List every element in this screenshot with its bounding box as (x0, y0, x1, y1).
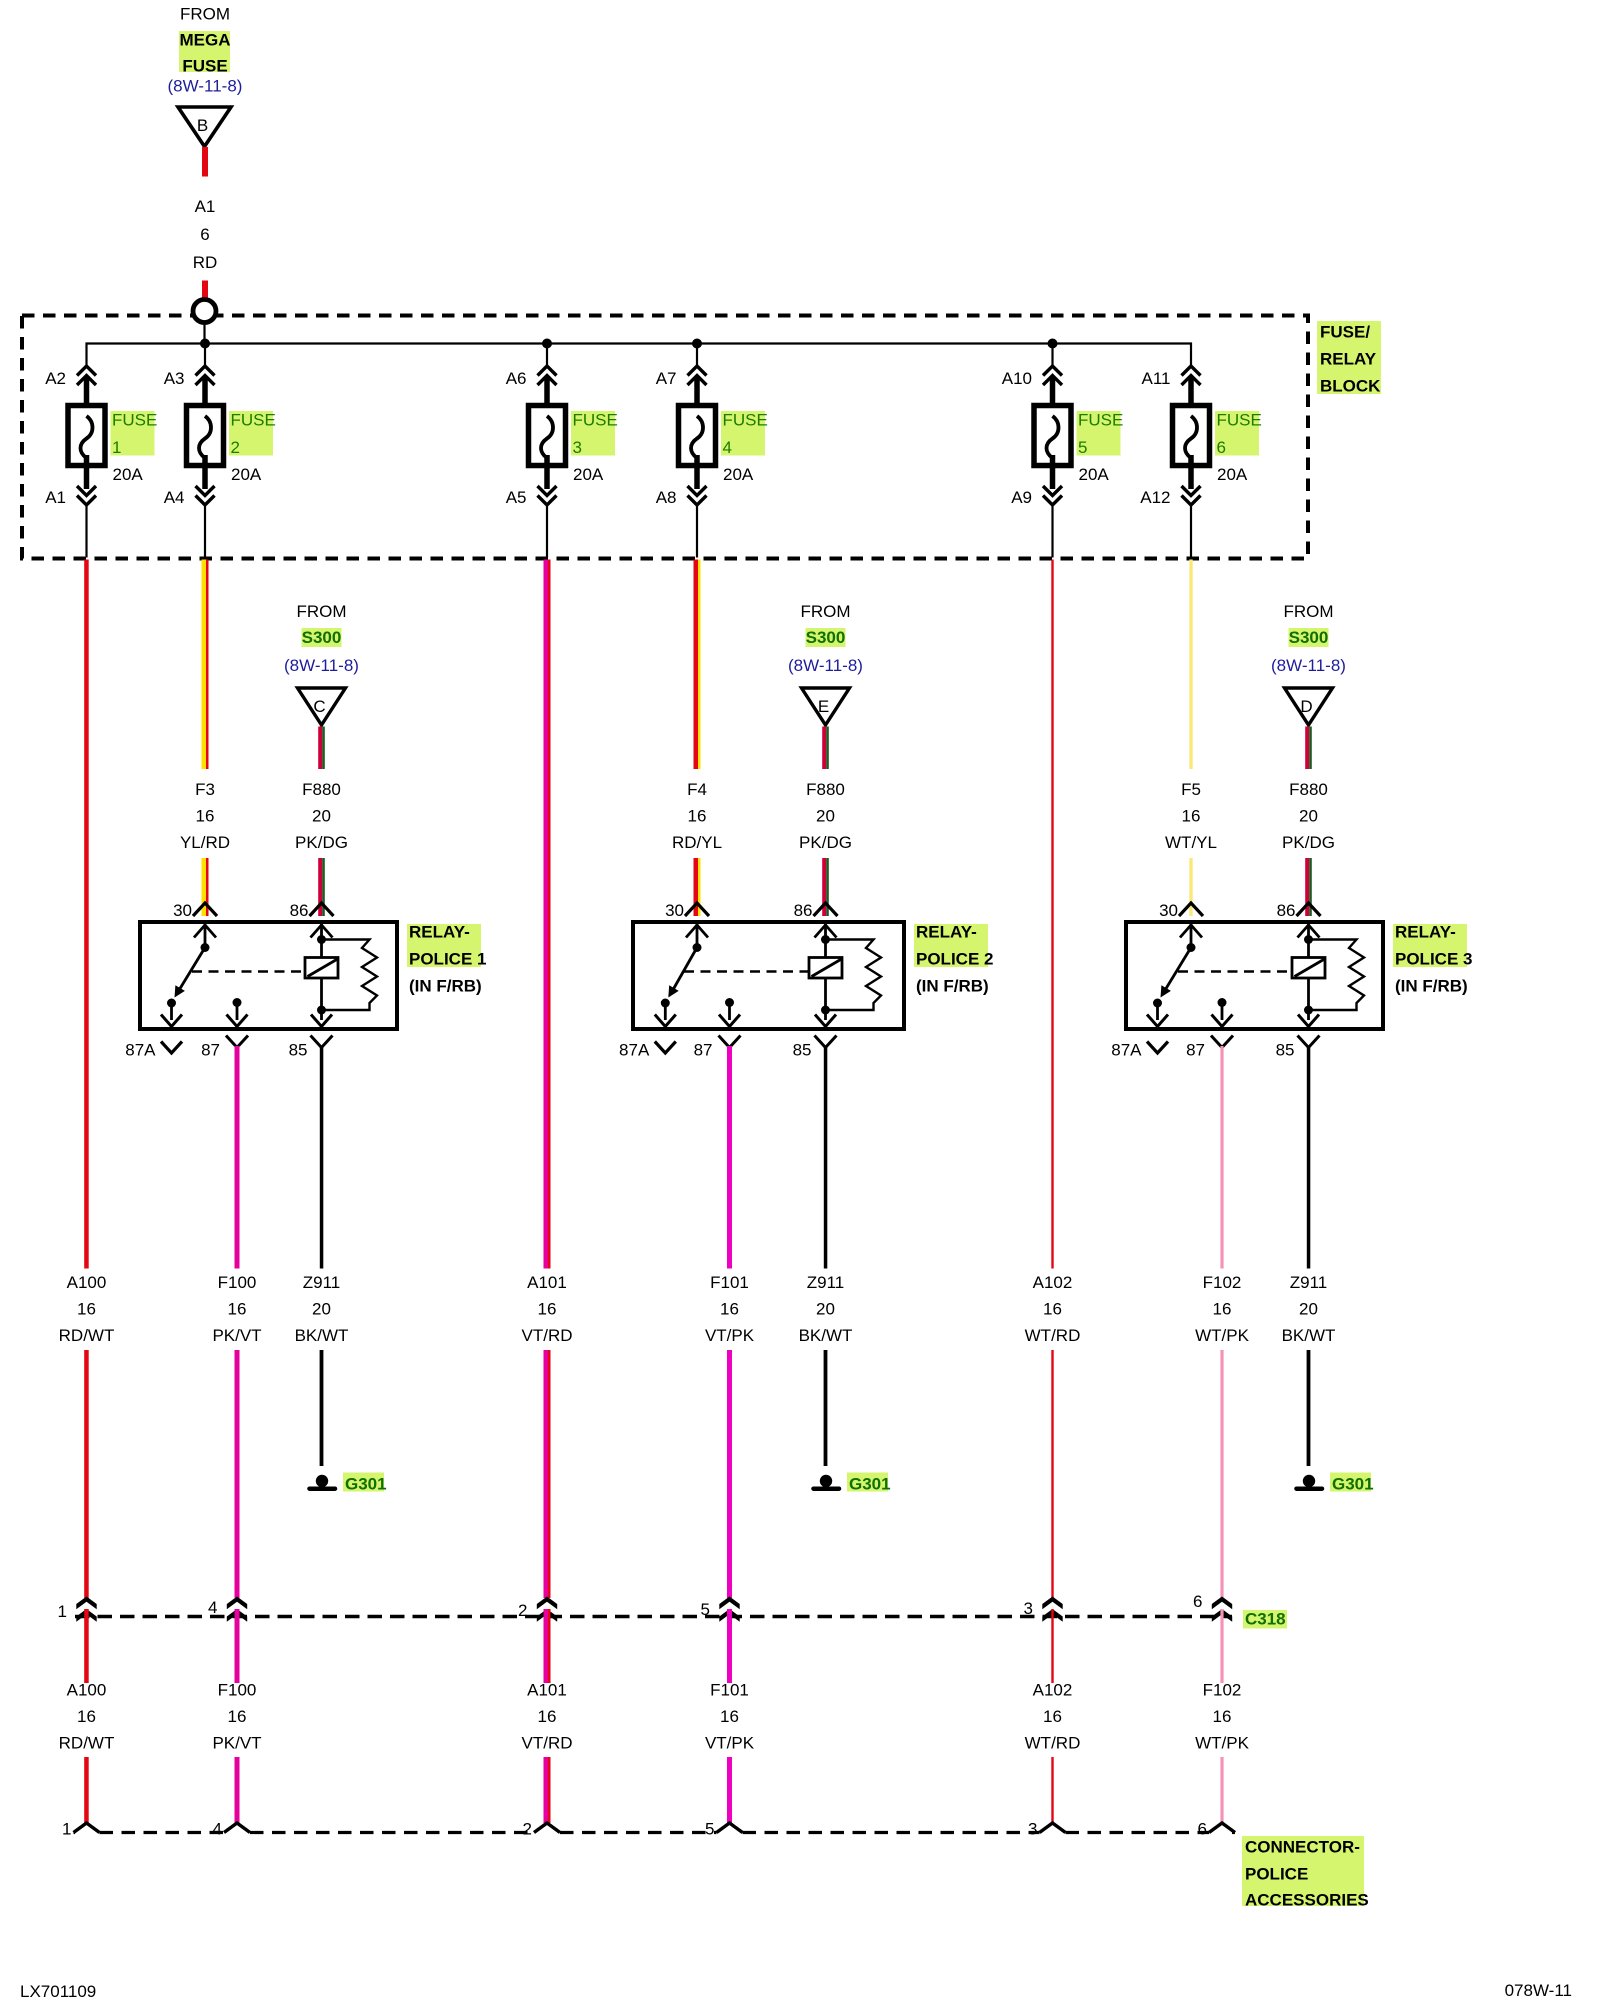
label RELAY-POLICE 2 (IN F/RB) (914, 923, 993, 996)
wire stub below fuse 1 (85, 505, 87, 558)
svg-text:5: 5 (701, 1600, 710, 1619)
svg-text:A6: A6 (506, 369, 527, 388)
wire F102 WT/PK - segment 2 (1220, 1350, 1223, 1598)
svg-text:16: 16 (720, 1707, 739, 1726)
off-page connector C (from S300) (298, 688, 346, 725)
wire A100 RD/WT - segment 4 (84, 1757, 89, 1823)
relay 2 pin 30 internal terminal (686, 924, 708, 952)
relay 3 pin 87A internal terminal (1147, 1003, 1168, 1027)
svg-text:VT/PK: VT/PK (705, 1734, 755, 1753)
svg-text:30: 30 (173, 901, 192, 920)
svg-text:F101: F101 (710, 1681, 749, 1700)
fuse F6 20A (1173, 378, 1210, 489)
svg-text:F101: F101 (710, 1273, 749, 1292)
svg-text:VT/PK: VT/PK (705, 1326, 755, 1345)
relay K3 RELAY-POLICE 3 box (1126, 922, 1383, 1029)
wire A101 VT/RD - segment 4 (544, 1757, 551, 1823)
connector pin A10 (fuse 5 top) (1002, 366, 1062, 388)
wire A102 WT/RD - segment 2 (1051, 1350, 1053, 1598)
wire F3 YL/RD - segment 2 (202, 858, 209, 916)
svg-text:FROM: FROM (180, 5, 230, 24)
svg-text:3: 3 (573, 438, 582, 457)
svg-text:3: 3 (1024, 1599, 1033, 1618)
svg-text:(IN F/RB): (IN F/RB) (409, 977, 482, 996)
relay 1 pin 87 internal terminal (227, 998, 248, 1027)
wire F880 PK/DG - segment 2 (relay 2) (822, 858, 829, 916)
label FROM S300 (8W-11-8) at E (788, 602, 863, 675)
footer sheet id LX701109 (20, 1982, 96, 2000)
wire A100 16 RD/WT - segment 1 (84, 560, 89, 1269)
connector pin A11 (fuse 6 top) (1142, 366, 1201, 388)
svg-text:PK/DG: PK/DG (1282, 833, 1335, 852)
svg-text:MEGA: MEGA (180, 31, 231, 50)
pin 87 connector (relay 2) (694, 1036, 741, 1060)
value label FUSE 6 (1215, 411, 1262, 458)
wire F101 VT/PK - segment 3 (727, 1609, 732, 1683)
label C318 (1243, 1610, 1287, 1629)
wire F100 16 PK/VT - segment 1 (235, 1046, 240, 1269)
svg-text:RD/WT: RD/WT (59, 1734, 115, 1753)
svg-text:078W-11: 078W-11 (1505, 1981, 1572, 2000)
relay 1 pin 87A internal terminal (161, 1003, 182, 1027)
value label FUSE 2 (229, 411, 276, 458)
svg-text:1: 1 (62, 1820, 71, 1839)
svg-text:A1: A1 (45, 488, 66, 507)
connector pin A1 (fuse 1 bottom) (45, 486, 96, 507)
svg-text:A12: A12 (1140, 488, 1170, 507)
svg-text:BLOCK: BLOCK (1320, 377, 1381, 396)
svg-text:86: 86 (1277, 901, 1296, 920)
svg-text:87: 87 (1186, 1041, 1205, 1060)
svg-text:B: B (197, 116, 208, 135)
relay 2 actuation dashed link (684, 970, 809, 973)
svg-text:85: 85 (289, 1041, 308, 1060)
connector pin A3 (fuse 2 top) (164, 366, 215, 388)
fuse F2 20A (187, 378, 224, 489)
svg-text:FROM: FROM (1283, 602, 1333, 621)
svg-text:F4: F4 (687, 780, 707, 799)
svg-text:87A: 87A (125, 1041, 156, 1060)
wire stub below fuse 3 (546, 505, 548, 558)
svg-text:6: 6 (1217, 438, 1226, 457)
relay K1 RELAY-POLICE 1 box (140, 922, 397, 1029)
wire label F880 20 PK/DG (1282, 780, 1335, 852)
connector pin A9 (fuse 5 bottom) (1011, 486, 1062, 507)
connector police accessories dashed line (74, 1831, 1236, 1834)
svg-text:A101: A101 (527, 1273, 567, 1292)
svg-text:(8W-11-8): (8W-11-8) (1271, 656, 1346, 675)
svg-text:FUSE: FUSE (182, 57, 227, 76)
svg-text:20: 20 (312, 1300, 331, 1319)
connector police accessories pin 4 (213, 1820, 250, 1839)
svg-text:FUSE: FUSE (112, 411, 157, 430)
svg-text:6: 6 (1198, 1820, 1207, 1839)
svg-text:1: 1 (112, 438, 121, 457)
svg-text:F880: F880 (1289, 780, 1328, 799)
ground G301 (relay 3) (1297, 1473, 1374, 1494)
wire F3 16 YL/RD - segment 1 (202, 560, 209, 770)
svg-text:16: 16 (538, 1300, 557, 1319)
svg-text:A102: A102 (1033, 1273, 1073, 1292)
svg-text:87: 87 (201, 1041, 220, 1060)
svg-text:D: D (1300, 697, 1312, 716)
connector C318 pin 4 (208, 1597, 247, 1622)
wire A1 6 RD - lower segment (202, 281, 208, 301)
connector C318 pin 2 (518, 1597, 557, 1622)
svg-text:RELAY-: RELAY- (409, 923, 470, 942)
svg-text:20A: 20A (113, 465, 144, 484)
svg-text:20A: 20A (1217, 465, 1248, 484)
wire label Z911 20 BK/WT (above C318) (295, 1273, 349, 1345)
svg-text:PK/DG: PK/DG (799, 833, 852, 852)
svg-text:LX701109: LX701109 (20, 1982, 96, 2000)
relay 2 suppression resistor (826, 940, 882, 1011)
relay 2 coil (86-85) (809, 924, 842, 1027)
svg-text:Z911: Z911 (807, 1273, 845, 1292)
relay 3 actuation dashed link (1178, 970, 1292, 973)
value label FUSE 4 (721, 411, 768, 458)
svg-text:F880: F880 (806, 780, 845, 799)
connector pin A7 (fuse 4 top) (656, 366, 707, 388)
pin 87A connector (relay 2) (619, 1041, 676, 1060)
bus wire in fuse/relay block (87, 344, 1192, 369)
svg-text:RD/WT: RD/WT (59, 1326, 115, 1345)
wire stub below fuse 2 (204, 505, 206, 558)
svg-text:F880: F880 (302, 780, 341, 799)
off-page connector E (from S300) (802, 688, 850, 725)
off-page connector B (from mega fuse) (178, 107, 231, 147)
relay 1 coil (86-85) (305, 924, 338, 1027)
value label FUSE 5 (1077, 411, 1124, 458)
connector pin A4 (fuse 2 bottom) (164, 486, 215, 507)
pin 87 connector (relay 1) (201, 1036, 248, 1060)
value label 20A (fuse 6) (1217, 465, 1248, 484)
wire F100 PK/VT - segment 2 (235, 1350, 240, 1598)
svg-text:WT/PK: WT/PK (1195, 1326, 1249, 1345)
svg-text:4: 4 (208, 1598, 217, 1617)
label FROM MEGA FUSE (168, 5, 243, 96)
svg-text:RELAY-: RELAY- (916, 923, 977, 942)
svg-text:VT/RD: VT/RD (522, 1734, 573, 1753)
svg-text:A5: A5 (506, 488, 527, 507)
svg-text:WT/RD: WT/RD (1025, 1734, 1081, 1753)
svg-text:5: 5 (705, 1820, 714, 1839)
value label 20A (fuse 3) (573, 465, 604, 484)
svg-text:(8W-11-8): (8W-11-8) (788, 656, 863, 675)
value label 20A (fuse 2) (231, 465, 262, 484)
svg-text:1: 1 (58, 1602, 67, 1621)
svg-text:20: 20 (1299, 1300, 1318, 1319)
wire Z911 20 BK/WT - segment 1 (relay 1) (320, 1046, 324, 1269)
fuse F5 20A (1034, 378, 1071, 489)
wire label Z911 20 BK/WT (above C318) (799, 1273, 853, 1345)
svg-text:16: 16 (538, 1707, 557, 1726)
svg-text:20: 20 (312, 807, 331, 826)
wire A1 6 RD - upper segment (202, 147, 208, 177)
svg-text:WT/RD: WT/RD (1025, 1326, 1081, 1345)
svg-text:16: 16 (196, 807, 215, 826)
wire label F880 20 PK/DG (799, 780, 852, 852)
svg-text:VT/RD: VT/RD (522, 1326, 573, 1345)
connector pin A5 (fuse 3 bottom) (506, 486, 557, 507)
svg-text:16: 16 (1043, 1300, 1062, 1319)
svg-text:20: 20 (1299, 807, 1318, 826)
relay 3 pin 87 internal terminal (1212, 998, 1233, 1027)
label RELAY-POLICE 3 (IN F/RB) (1393, 923, 1472, 996)
relay 2 pin 87 internal terminal (719, 998, 740, 1027)
svg-text:G301: G301 (345, 1475, 387, 1494)
svg-text:RELAY-: RELAY- (1395, 923, 1456, 942)
wire label Z911 20 BK/WT (above C318) (1282, 1273, 1336, 1345)
svg-text:A3: A3 (164, 369, 185, 388)
svg-text:4: 4 (213, 1820, 222, 1839)
wire label A102 16 WT/RD (below C318) (1025, 1681, 1081, 1753)
wire A102 WT/RD - segment 3 (1051, 1609, 1053, 1683)
wire Z911 BK/WT to ground (relay 3) (1307, 1350, 1311, 1466)
wire label F100 16 PK/VT (above C318) (212, 1273, 261, 1345)
relay 3 suppression resistor (1309, 940, 1365, 1011)
relay 2 pin 87A internal terminal (655, 1003, 676, 1027)
relay 3 coil (86-85) (1292, 924, 1325, 1027)
svg-text:C: C (313, 697, 325, 716)
svg-text:POLICE 1: POLICE 1 (409, 950, 486, 969)
pin 87A connector (relay 3) (1111, 1041, 1168, 1060)
svg-text:3: 3 (1028, 1820, 1037, 1839)
wire F4 16 RD/YL - segment 1 (694, 560, 701, 770)
svg-text:RELAY: RELAY (1320, 350, 1377, 369)
pin 86 connector (relay 1) (290, 901, 334, 920)
wire stub below fuse 4 (696, 505, 698, 558)
pin 30 connector (relay 3) (1159, 901, 1203, 920)
wire F880 20 PK/DG below connector D (1305, 727, 1312, 770)
svg-text:16: 16 (228, 1300, 247, 1319)
svg-text:PK/VT: PK/VT (212, 1326, 261, 1345)
svg-text:6: 6 (200, 225, 209, 244)
wire A101 VT/RD - segment 3 (544, 1609, 551, 1683)
svg-text:5: 5 (1078, 438, 1087, 457)
svg-text:F3: F3 (195, 780, 215, 799)
wire label F100 16 PK/VT (below C318) (212, 1681, 261, 1753)
svg-text:20A: 20A (723, 465, 754, 484)
connector police accessories pin 1 (62, 1820, 99, 1839)
value label 20A (fuse 4) (723, 465, 754, 484)
svg-text:6: 6 (1193, 1592, 1202, 1611)
relay 1 suppression resistor (322, 940, 378, 1011)
connector C318 pin 5 (701, 1597, 740, 1622)
svg-text:FUSE: FUSE (1217, 411, 1262, 430)
pin 85 connector (relay 2) (793, 1036, 837, 1060)
svg-text:FROM: FROM (296, 602, 346, 621)
svg-text:FUSE: FUSE (1078, 411, 1123, 430)
wire label F102 16 WT/PK (below C318) (1195, 1681, 1249, 1753)
relay 1 pin 30 internal terminal (194, 924, 216, 952)
junction dot on bus at fuse 3 feed (542, 339, 552, 369)
svg-text:F102: F102 (1203, 1681, 1242, 1700)
svg-text:POLICE: POLICE (1245, 1865, 1308, 1884)
connector police accessories pin 2 (523, 1820, 560, 1839)
pin 30 connector (relay 1) (173, 901, 217, 920)
wire F101 VT/PK - segment 4 (727, 1757, 732, 1823)
wire Z911 BK/WT to ground (relay 1) (320, 1350, 324, 1466)
footer sheet id 078W-11 (1505, 1981, 1572, 2000)
connector C318 pin 6 (1193, 1592, 1232, 1622)
wire label A100 16 RD/WT (below C318) (59, 1681, 115, 1753)
pin 85 connector (relay 1) (289, 1036, 333, 1060)
svg-text:(8W-11-8): (8W-11-8) (168, 77, 243, 96)
wire A100 RD/WT - segment 3 (84, 1609, 89, 1683)
wire Z911 20 BK/WT - segment 1 (relay 2) (824, 1046, 828, 1269)
wire A100 RD/WT - segment 2 (84, 1350, 89, 1598)
wire Z911 BK/WT to ground (relay 2) (824, 1350, 828, 1466)
wire F880 PK/DG - segment 2 (relay 1) (318, 858, 325, 916)
wire F880 20 PK/DG below connector E (822, 727, 829, 770)
svg-text:16: 16 (77, 1707, 96, 1726)
fuse F3 20A (529, 378, 566, 489)
wire F4 RD/YL - segment 2 (694, 858, 701, 916)
connector pin A8 (fuse 4 bottom) (656, 486, 707, 507)
svg-text:A100: A100 (67, 1681, 107, 1700)
svg-text:87A: 87A (1111, 1041, 1142, 1060)
wire from splice to bus (203, 323, 205, 346)
svg-text:F5: F5 (1181, 780, 1201, 799)
svg-text:WT/PK: WT/PK (1195, 1734, 1249, 1753)
pin 86 connector (relay 2) (794, 901, 838, 920)
splice node at fuse/relay block input (193, 300, 216, 323)
wire F102 WT/PK - segment 4 (1220, 1757, 1223, 1823)
svg-text:A1: A1 (195, 197, 216, 216)
relay 3 pin 30 internal terminal (1180, 924, 1202, 952)
wire F5 16 WT/YL - segment 1 (1189, 560, 1192, 770)
wire label F5 16 WT/YL (1165, 780, 1217, 852)
fuse F4 20A (679, 378, 716, 489)
wire F101 VT/PK - segment 2 (727, 1350, 732, 1598)
svg-text:16: 16 (228, 1707, 247, 1726)
svg-text:FUSE: FUSE (231, 411, 276, 430)
svg-text:BK/WT: BK/WT (295, 1326, 349, 1345)
svg-text:FUSE: FUSE (573, 411, 618, 430)
wire F101 16 VT/PK - segment 1 (727, 1046, 732, 1269)
svg-text:2: 2 (231, 438, 240, 457)
svg-text:A101: A101 (527, 1681, 567, 1700)
svg-text:BK/WT: BK/WT (1282, 1326, 1336, 1345)
junction dot on bus at fuse 2 feed (200, 339, 210, 369)
svg-text:S300: S300 (1289, 628, 1329, 647)
wire F5 WT/YL - segment 2 (1189, 858, 1192, 916)
wire label F3 16 YL/RD (180, 780, 230, 852)
svg-text:A10: A10 (1002, 369, 1032, 388)
svg-text:A7: A7 (656, 369, 677, 388)
value label 20A (fuse 1) (113, 465, 144, 484)
svg-text:G301: G301 (849, 1475, 891, 1494)
svg-text:BK/WT: BK/WT (799, 1326, 853, 1345)
label CONNECTOR-POLICE ACCESSORIES (1242, 1836, 1369, 1910)
svg-text:20: 20 (816, 1300, 835, 1319)
svg-text:2: 2 (518, 1601, 527, 1620)
pin 30 connector (relay 2) (665, 901, 709, 920)
ground G301 (relay 1) (310, 1473, 387, 1494)
svg-text:F102: F102 (1203, 1273, 1242, 1292)
svg-text:(8W-11-8): (8W-11-8) (284, 656, 359, 675)
wire stub below fuse 6 (1190, 505, 1192, 558)
svg-text:85: 85 (793, 1041, 812, 1060)
connector pin A12 (fuse 6 bottom) (1140, 486, 1200, 507)
ground G301 (relay 2) (814, 1473, 891, 1494)
svg-text:Z911: Z911 (303, 1273, 341, 1292)
wire label F102 16 WT/PK (above C318) (1195, 1273, 1249, 1345)
svg-text:16: 16 (1213, 1707, 1232, 1726)
connector C318 pin 3 (1024, 1597, 1063, 1622)
connector police accessories pin 6 (1198, 1820, 1235, 1839)
svg-text:A2: A2 (45, 369, 66, 388)
svg-text:16: 16 (1213, 1300, 1232, 1319)
svg-text:PK/VT: PK/VT (212, 1734, 261, 1753)
wire A102 WT/RD - segment 4 (1051, 1757, 1053, 1823)
value label FUSE 1 (111, 411, 158, 458)
svg-text:PK/DG: PK/DG (295, 833, 348, 852)
label FROM S300 (8W-11-8) at C (284, 602, 359, 675)
label FROM S300 (8W-11-8) at D (1271, 602, 1346, 675)
label FUSE/RELAY BLOCK (1317, 321, 1381, 396)
svg-text:F100: F100 (218, 1681, 257, 1700)
relay 1 actuation dashed link (192, 970, 305, 973)
junction dot on bus at fuse 5 feed (1048, 339, 1058, 369)
pin 85 connector (relay 3) (1276, 1036, 1320, 1060)
svg-text:86: 86 (290, 901, 309, 920)
svg-text:2: 2 (523, 1820, 532, 1839)
svg-text:20A: 20A (573, 465, 604, 484)
wire F100 PK/VT - segment 4 (235, 1757, 240, 1823)
wire A101 VT/RD - segment 2 (544, 1350, 551, 1598)
label RELAY-POLICE 1 (IN F/RB) (407, 923, 486, 996)
connector police accessories pin 3 (1028, 1820, 1065, 1839)
fuse/relay block dashed border (22, 316, 1308, 559)
svg-text:16: 16 (688, 807, 707, 826)
wire F102 16 WT/PK - segment 1 (1220, 1046, 1223, 1269)
connector C318 pin 1 (58, 1597, 97, 1622)
svg-text:87A: 87A (619, 1041, 650, 1060)
wire label F880 20 PK/DG (295, 780, 348, 852)
off-page connector D (from S300) (1285, 688, 1333, 725)
svg-text:16: 16 (77, 1300, 96, 1319)
connector pin A2 (fuse 1 top) (45, 366, 96, 388)
svg-text:30: 30 (665, 901, 684, 920)
svg-text:CONNECTOR-: CONNECTOR- (1245, 1838, 1360, 1857)
wire A102 16 WT/RD - segment 1 (1051, 560, 1053, 1269)
wire F100 PK/VT - segment 3 (235, 1609, 240, 1683)
relay 1 switch armature (30 to 87A) (167, 948, 205, 1008)
value label 20A (fuse 5) (1079, 465, 1110, 484)
wire label A1 6 RD (193, 197, 218, 272)
fuse F1 20A (68, 378, 105, 489)
wire label A102 16 WT/RD (above C318) (1025, 1273, 1081, 1345)
svg-text:87: 87 (694, 1041, 713, 1060)
svg-text:FUSE/: FUSE/ (1320, 323, 1370, 342)
svg-text:A4: A4 (164, 488, 185, 507)
svg-text:85: 85 (1276, 1041, 1295, 1060)
pin 86 connector (relay 3) (1277, 901, 1321, 920)
svg-text:POLICE 3: POLICE 3 (1395, 950, 1472, 969)
wire F880 20 PK/DG below connector C (318, 727, 325, 770)
wire label F101 16 VT/PK (above C318) (705, 1273, 755, 1345)
svg-text:30: 30 (1159, 901, 1178, 920)
svg-text:20: 20 (816, 807, 835, 826)
svg-text:RD: RD (193, 253, 218, 272)
svg-text:16: 16 (720, 1300, 739, 1319)
svg-text:C318: C318 (1245, 1610, 1286, 1629)
svg-text:16: 16 (1043, 1707, 1062, 1726)
pin 87A connector (relay 1) (125, 1041, 182, 1060)
svg-text:WT/YL: WT/YL (1165, 833, 1217, 852)
